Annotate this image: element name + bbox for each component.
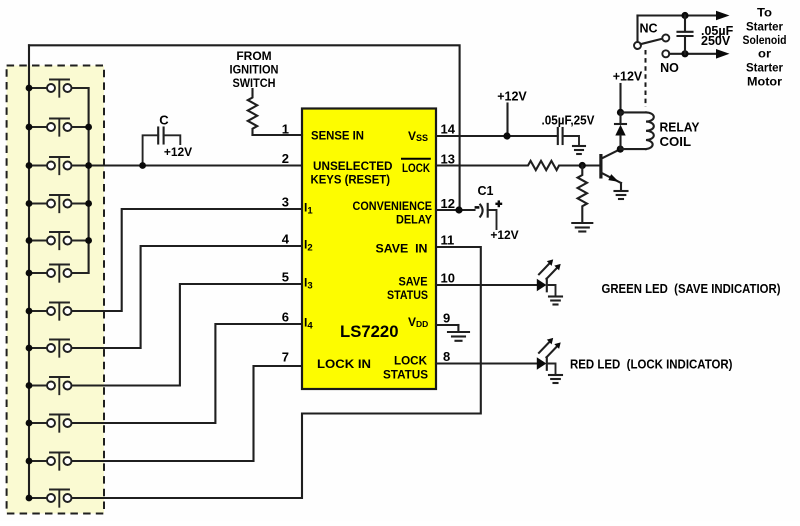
switch S12 (save key) [29,490,72,507]
svg-text:LOCK IN: LOCK IN [317,357,371,371]
svg-text:STATUS: STATUS [387,288,428,302]
svg-text:Starter: Starter [746,20,783,34]
svg-text:8: 8 [443,349,450,364]
junction pin12/C1 [455,206,462,213]
svg-text:FROM: FROM [236,49,271,63]
junction VSS/+12V [503,132,510,139]
label SAVE IN [376,242,428,256]
switch S9 [29,377,72,394]
+12V supply at relay coil [613,70,643,113]
svg-text:NO: NO [660,61,679,75]
svg-text:or: or [758,47,771,61]
svg-text:12: 12 [441,196,455,211]
ground (emitter) [615,191,628,199]
svg-text:RED LED (LOCK INDICATOR): RED LED (LOCK INDICATOR) [570,357,733,372]
relay contact assembly: pole [634,16,663,50]
diode D1 (flyback) [615,112,626,149]
svg-text:3: 3 [282,195,289,210]
junction node C to reset line [139,162,146,169]
svg-text:IGNITION: IGNITION [230,63,279,77]
LED red (lock) [537,338,561,375]
transistor Q1 [601,149,621,190]
switch S1 [29,80,89,97]
label NC [639,22,657,36]
svg-text:SAVE: SAVE [399,275,428,289]
junction dots on left bus [26,85,33,502]
wire: pole to starter (top) with arrow [638,11,730,21]
label VDD [408,315,428,329]
wire: row11 to pin7 LOCK IN [72,366,303,461]
svg-text:10: 10 [441,271,455,286]
label SENSE IN [311,129,364,143]
svg-text:+12V: +12V [497,90,527,104]
svg-text:+12V: +12V [490,228,518,242]
junction dots on right keypad bus [85,124,92,244]
svg-text:6: 6 [282,310,289,325]
label GREEN LED (SAVE INDICATIOR) [602,281,781,296]
label .05uF 250V [701,24,734,48]
svg-text:SENSE IN: SENSE IN [311,129,364,143]
svg-text:LOCK: LOCK [402,161,430,175]
ground (pulldown) [572,223,592,232]
label LOCK STATUS [383,354,428,382]
wire: keypad common top bus [29,45,460,210]
pin 10 number [441,271,455,286]
capacitor .05uF 250V (arc suppression) [678,16,693,54]
label To Starter Solenoid or Starter Motor [743,6,787,89]
junction arc-cap top [681,12,688,19]
resistor R2 (base series) [525,161,562,170]
pin 13 number [441,152,455,167]
pin 11 number [441,233,455,248]
junction arc-cap bottom [681,50,688,57]
label RED LED (LOCK INDICATOR) [570,357,733,372]
pin 4 number [282,232,290,247]
pin 6 number [282,310,289,325]
wire: keypad right vertical bus [88,88,90,273]
label FROM IGNITION SWITCH [230,49,279,90]
svg-text:LS7220: LS7220 [340,323,399,341]
wire: pin 14 VSS rail [436,135,558,137]
svg-text:2: 2 [282,151,289,166]
label I4 [304,316,313,332]
svg-text:7: 7 [282,350,289,365]
wire: resistor to base [562,164,600,166]
wire: pin 9 VDD to ground [436,325,458,332]
svg-text:250V: 250V [701,34,731,48]
wire: row3 to pin2 [72,164,303,166]
pin 9 number [443,311,450,326]
svg-text:NC: NC [639,22,657,36]
label LOCK IN [317,357,371,371]
pin 3 number [282,195,289,210]
pin 12 number [441,196,455,211]
keypad dashed enclosure [7,66,104,514]
label SAVE STATUS [387,275,428,303]
contact NO [662,50,669,57]
wire: pin 12 convenience delay [436,209,475,211]
pin 1 number [282,122,289,137]
dashed actuator link [645,50,647,107]
resistor R1 (ignition sense) [248,89,257,135]
pin 5 number [282,270,289,285]
svg-text:11: 11 [441,233,455,248]
ground (bypass cap) [573,146,585,154]
svg-text:.05µF,25V: .05µF,25V [542,114,596,128]
svg-text:DELAY: DELAY [396,213,432,227]
wire: row10 to pin6 [72,324,303,423]
label LOCK (overlined) [401,159,431,175]
switch S10 [29,415,72,432]
label UNSELECTED KEYS (RESET) [311,159,393,187]
switch S4 [29,195,89,212]
svg-text:9: 9 [443,311,450,326]
junction collector/coil [617,146,624,153]
svg-text:COIL: COIL [660,135,692,149]
capacitor C [143,113,181,166]
svg-text:Motor: Motor [747,75,782,89]
svg-text:Starter: Starter [746,61,783,75]
svg-text:4: 4 [282,232,290,247]
LED green (save) [537,259,561,296]
label RELAY COIL [660,121,701,150]
label C1 [478,184,494,198]
svg-text:SAVE IN: SAVE IN [376,242,428,256]
ground (red LED) [549,375,562,383]
ground (green LED) [549,297,562,305]
svg-text:CONVENIENCE: CONVENIENCE [353,199,433,213]
switch S8 [29,340,72,357]
svg-text:SWITCH: SWITCH [233,76,276,90]
+12V label at C [164,145,192,159]
wire: row9 to pin5 [72,284,303,386]
svg-text:RELAY: RELAY [660,121,701,135]
svg-text:UNSELECTED: UNSELECTED [313,159,393,173]
svg-text:Solenoid: Solenoid [743,33,787,47]
ground (VDD pin 9) [448,332,469,341]
svg-text:5: 5 [282,270,289,285]
capacitor C1 (polarized) [475,200,503,229]
label NO [660,61,679,75]
wire: pin 1 [253,134,303,136]
svg-text:STATUS: STATUS [383,368,428,382]
switch S3 [29,157,72,174]
svg-text:KEYS (RESET): KEYS (RESET) [311,173,391,187]
+12V supply at VSS [497,90,527,137]
label VSS [408,129,428,143]
pin 7 number [282,350,289,365]
capacitor .05uF,25V [542,114,596,146]
relay coil L1 [620,112,654,149]
resistor R3 (base pulldown) [578,166,587,223]
switch S6 [29,265,89,282]
switch S5 [29,232,89,249]
contact NC [662,35,669,42]
svg-text:+12V: +12V [613,70,643,84]
switch S11 (lock key) [29,453,72,470]
op-amp U1 LS7220 body [302,109,436,390]
wire: row7 to pin3 [72,209,303,311]
pin 2 number [282,151,289,166]
pin 14 number [441,122,456,137]
label LS7220 [340,323,399,341]
label CONVENIENCE DELAY [353,199,433,227]
switch S2 [29,119,89,136]
svg-text:14: 14 [441,122,456,137]
svg-text:+12V: +12V [164,145,192,159]
wire: row12 to pin11 SAVE IN [72,247,481,498]
+12V label at C1 [490,228,518,242]
svg-text:GREEN LED (SAVE INDICATIOR): GREEN LED (SAVE INDICATIOR) [602,281,781,296]
pin 8 number [443,349,450,364]
switch S7 [29,303,72,320]
svg-text:13: 13 [441,152,455,167]
wire: pin 10 to green LED [436,284,537,286]
junction base node [579,162,586,169]
wire: NO to starter with arrow [669,49,729,59]
svg-text:To: To [757,6,772,20]
label I3 [304,276,313,292]
svg-text:C: C [159,113,169,128]
svg-text:C1: C1 [478,184,494,198]
wire: row8 to pin4 [72,246,303,348]
wire: keypad left vertical bus [28,45,30,498]
junction coil top [617,109,624,116]
wire: pin 8 to red LED [436,362,537,364]
wire: pin 13 LOCK out [436,164,525,166]
svg-text:LOCK: LOCK [394,354,427,368]
label I1 [304,201,313,217]
label I2 [304,238,313,254]
